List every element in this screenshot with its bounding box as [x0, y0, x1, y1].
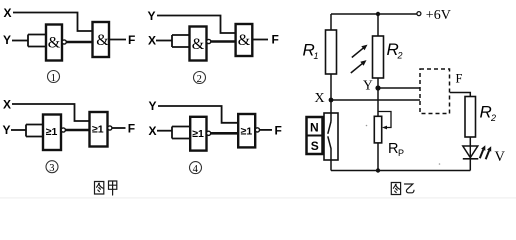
wire X to gate U6 (diagram 3)	[12, 104, 90, 121]
reed switch tube	[324, 113, 338, 160]
wire output F (diagram 2)	[252, 39, 268, 41]
svg-text:≥1: ≥1	[92, 123, 104, 135]
LED light arrows	[480, 145, 491, 159]
wire output F (diagram 1)	[109, 39, 126, 41]
resistor R3 (series with LED)	[465, 97, 476, 138]
label circled 1	[48, 71, 60, 85]
wire photoresistor top lead	[377, 14, 379, 36]
svg-text:Y: Y	[148, 9, 156, 23]
caption 图甲 (drawn hanzi)	[95, 181, 117, 195]
wire Y input (diagram 3)	[11, 129, 26, 131]
svg-text:≥1: ≥1	[192, 128, 204, 140]
resistor R1	[326, 30, 337, 74]
svg-text:F: F	[128, 122, 135, 136]
svg-text:&: &	[48, 35, 61, 52]
svg-text:X: X	[149, 124, 157, 138]
terminal +6V	[417, 12, 421, 16]
node Y junction dot	[375, 85, 380, 90]
svg-text:1: 1	[51, 73, 56, 84]
svg-text:Y: Y	[3, 123, 11, 137]
wire output F (diagram 3)	[112, 127, 126, 129]
wire node Y to gate box input	[378, 87, 420, 89]
svg-text:R: R	[388, 141, 398, 157]
wire rheostat bottom lead	[377, 143, 379, 171]
label R3	[480, 103, 497, 124]
label R2 photoresistor	[387, 40, 403, 61]
svg-text:4: 4	[193, 164, 199, 175]
bubble at U6 output (diagram 3)	[108, 126, 112, 130]
svg-text:≥1: ≥1	[241, 125, 253, 137]
junction dot top rail	[376, 12, 380, 16]
wire node X to gate box input	[331, 99, 420, 101]
wire X split to both NAND inputs (diagram 2)	[172, 35, 190, 47]
bubble at U8 output (diagram 4)	[255, 128, 259, 132]
wire U5 to U6 (diagram 3)	[65, 129, 89, 132]
svg-text:F: F	[456, 72, 463, 86]
NOR gate U5 (diagram 3)	[43, 115, 61, 151]
wire X to gate U2 (diagram 1)	[13, 13, 93, 32]
NOR gate U8 (diagram 4)	[238, 114, 255, 147]
wire X split to both NOR inputs (diagram 4)	[172, 127, 190, 139]
svg-text:Y: Y	[363, 78, 373, 93]
label circled 3	[46, 161, 58, 175]
bubble at U7 output (diagram 4)	[207, 131, 211, 135]
wire R1 top lead	[330, 14, 332, 30]
wire Y split to both NAND inputs (diagram 1)	[28, 35, 46, 47]
svg-text:S: S	[311, 139, 319, 153]
wire reed switch to bottom rail	[330, 160, 332, 171]
svg-text:V: V	[495, 149, 506, 165]
svg-text:&: &	[96, 32, 109, 49]
reed switch contacts	[328, 122, 331, 161]
svg-text:X: X	[148, 34, 156, 48]
AND gate U4 (diagram 2)	[236, 24, 253, 56]
AND gate U2 (diagram 1)	[93, 22, 110, 57]
NOR gate U7 (diagram 4)	[190, 117, 206, 151]
wire R1 bottom lead to node X	[330, 74, 332, 100]
svg-text:R: R	[480, 103, 492, 122]
svg-text:2: 2	[197, 74, 202, 85]
logic gate black box (dashed)	[420, 69, 450, 114]
svg-text:P: P	[398, 148, 404, 158]
magnet N/S	[307, 117, 323, 154]
svg-text:&: &	[238, 32, 251, 49]
wire top rail	[331, 13, 417, 15]
svg-text:3: 3	[49, 163, 54, 174]
svg-text:X: X	[4, 6, 12, 20]
label RP	[388, 141, 404, 158]
label R1	[303, 41, 319, 62]
svg-text:Y: Y	[3, 33, 11, 47]
svg-text:F: F	[128, 33, 135, 47]
svg-text:1: 1	[314, 51, 319, 61]
rheostat RP	[374, 112, 391, 143]
bubble at U1 output (diagram 1)	[62, 40, 66, 44]
wire X input (diagram 2)	[156, 40, 172, 42]
wire Y to gate U4 (diagram 2)	[157, 16, 236, 34]
wire output F (diagram 4)	[260, 129, 273, 131]
NAND gate U3 (diagram 2)	[190, 27, 207, 61]
photoresistor R2	[373, 36, 384, 78]
bubble at U5 output (diagram 3)	[61, 128, 65, 132]
wire U3 to U4 (diagram 2)	[211, 40, 236, 43]
svg-text:N: N	[310, 121, 319, 135]
node X junction dot	[329, 98, 334, 103]
wire R2 bottom lead to node Y	[377, 78, 379, 88]
wire R3 to LED	[469, 137, 471, 146]
wire node X down to reed switch	[330, 100, 332, 122]
label circled 4	[190, 162, 202, 176]
svg-text:F: F	[272, 33, 279, 47]
wire U1 to U2 (diagram 1)	[66, 41, 92, 44]
NAND gate U1 (diagram 1)	[46, 25, 62, 61]
wire node Y down to rheostat	[377, 88, 379, 116]
svg-text:X: X	[315, 91, 325, 106]
svg-text:&: &	[192, 36, 205, 53]
svg-text:+6V: +6V	[426, 8, 451, 23]
svg-text:Y: Y	[149, 99, 157, 113]
NOR gate U6 (diagram 3)	[90, 112, 108, 147]
LED V	[463, 146, 479, 171]
wire Y to gate U8 (diagram 4)	[158, 106, 238, 123]
wire X input (diagram 4)	[157, 130, 172, 132]
wire Y input (diagram 1)	[12, 40, 28, 42]
svg-text:≥1: ≥1	[46, 126, 58, 138]
svg-text:2: 2	[490, 113, 496, 123]
svg-text:F: F	[275, 123, 282, 137]
bubble at U3 output (diagram 2)	[207, 39, 211, 43]
caption 图乙 (drawn hanzi)	[391, 183, 414, 195]
wire Y split to both NOR inputs (diagram 3)	[26, 125, 43, 137]
junction dot bottom rail	[376, 168, 380, 172]
svg-text:2: 2	[397, 51, 403, 61]
wire U7 to U8 (diagram 4)	[211, 132, 239, 135]
wire F output from box to R3	[450, 93, 471, 97]
wire bottom rail	[331, 170, 470, 172]
light arrows onto R2	[351, 45, 368, 73]
label circled 2	[194, 72, 206, 86]
svg-text:X: X	[3, 98, 11, 112]
